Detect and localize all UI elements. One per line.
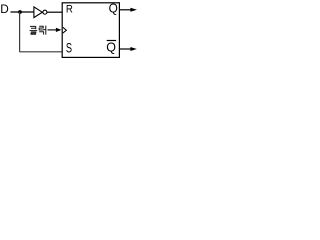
svg-text:Q: Q — [109, 1, 118, 15]
clock wedge — [63, 27, 67, 33]
svg-text:D: D — [0, 2, 9, 16]
inverter U1 triangle — [34, 7, 42, 18]
latch U2 body — [62, 3, 119, 58]
wire bottom to S input — [20, 51, 62, 53]
inverter U1 bubble — [43, 10, 47, 14]
wire Qbar output — [120, 48, 132, 50]
node junction dot — [18, 10, 22, 14]
clock arrowhead — [56, 28, 62, 32]
svg-text:Q: Q — [106, 40, 116, 54]
label 클럭 (clock) glyph 클 — [30, 26, 38, 34]
svg-text:S: S — [66, 40, 72, 57]
wire inverter to R input — [47, 11, 62, 13]
wire junction down — [19, 12, 21, 52]
Qbar output arrowhead — [130, 47, 136, 51]
wire D to inverter — [11, 11, 35, 13]
svg-text:R: R — [66, 3, 73, 16]
wire Q output — [120, 9, 132, 11]
Qbar overbar — [107, 40, 116, 42]
wire clock arrow shaft — [48, 29, 58, 31]
Q output arrowhead — [130, 8, 137, 12]
label 클럭 (clock) glyph 럭 — [39, 26, 46, 35]
